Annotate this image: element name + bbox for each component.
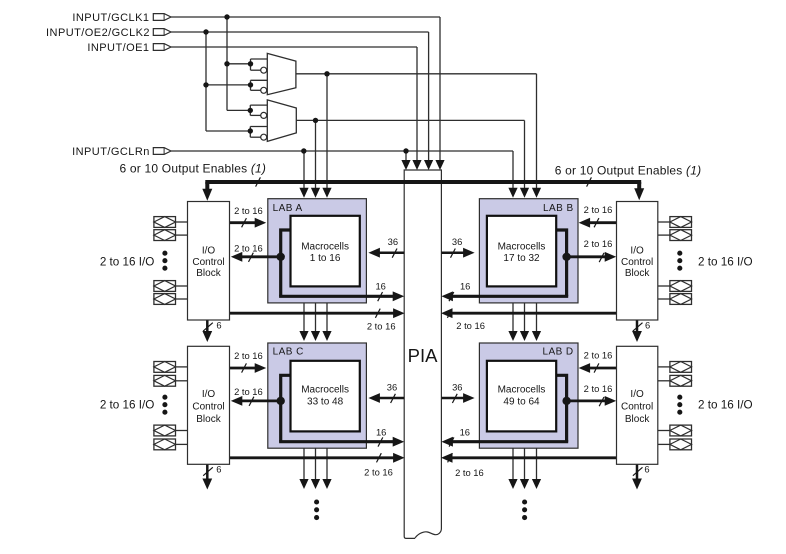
svg-text:I/O: I/O bbox=[202, 389, 216, 400]
svg-text:6 or 10 Output Enables (1): 6 or 10 Output Enables (1) bbox=[120, 161, 267, 175]
svg-text:17 to 32: 17 to 32 bbox=[503, 253, 540, 264]
svg-text:LAB C: LAB C bbox=[273, 346, 304, 357]
svg-text:2 to 16: 2 to 16 bbox=[234, 386, 263, 397]
svg-text:36: 36 bbox=[388, 236, 398, 247]
svg-text:Macrocells: Macrocells bbox=[498, 242, 546, 253]
svg-text:INPUT/OE2/GCLK2: INPUT/OE2/GCLK2 bbox=[46, 27, 150, 39]
svg-text:Block: Block bbox=[625, 268, 650, 279]
svg-text:16: 16 bbox=[376, 427, 386, 438]
svg-text:Control: Control bbox=[192, 257, 224, 268]
svg-text:2 to 16: 2 to 16 bbox=[364, 467, 393, 478]
svg-text:2 to 16: 2 to 16 bbox=[455, 467, 484, 478]
svg-text:LAB A: LAB A bbox=[273, 203, 303, 214]
svg-text:Macrocells: Macrocells bbox=[301, 242, 349, 253]
svg-text:PIA: PIA bbox=[408, 345, 438, 366]
svg-text:LAB B: LAB B bbox=[543, 203, 574, 214]
svg-text:INPUT/GCLK1: INPUT/GCLK1 bbox=[72, 12, 149, 24]
svg-text:6: 6 bbox=[644, 463, 649, 474]
svg-text:Control: Control bbox=[621, 257, 653, 268]
svg-text:36: 36 bbox=[387, 381, 397, 392]
svg-text:2 to 16: 2 to 16 bbox=[234, 243, 263, 254]
svg-text:6: 6 bbox=[645, 320, 650, 331]
svg-text:Macrocells: Macrocells bbox=[498, 385, 546, 396]
svg-text:49 to 64: 49 to 64 bbox=[503, 396, 540, 407]
svg-text:36: 36 bbox=[452, 236, 462, 247]
svg-text:1 to 16: 1 to 16 bbox=[310, 253, 341, 264]
svg-text:6 or 10 Output Enables (1): 6 or 10 Output Enables (1) bbox=[555, 163, 702, 177]
svg-text:INPUT/OE1: INPUT/OE1 bbox=[87, 42, 149, 54]
svg-text:Control: Control bbox=[192, 402, 224, 413]
svg-text:LAB D: LAB D bbox=[542, 346, 573, 357]
svg-text:2 to 16: 2 to 16 bbox=[584, 238, 613, 249]
svg-text:2 to 16: 2 to 16 bbox=[584, 383, 613, 394]
svg-text:I/O: I/O bbox=[202, 246, 216, 257]
svg-text:2 to 16: 2 to 16 bbox=[234, 350, 263, 361]
svg-text:2 to 16 I/O: 2 to 16 I/O bbox=[698, 399, 753, 412]
svg-text:2 to 16 I/O: 2 to 16 I/O bbox=[100, 399, 155, 412]
svg-text:16: 16 bbox=[375, 280, 385, 291]
svg-text:16: 16 bbox=[460, 280, 470, 291]
svg-text:2 to 16: 2 to 16 bbox=[584, 204, 613, 215]
svg-text:Block: Block bbox=[625, 414, 650, 425]
svg-text:I/O: I/O bbox=[630, 389, 644, 400]
svg-text:2 to 16: 2 to 16 bbox=[584, 349, 613, 360]
svg-text:2 to 16 I/O: 2 to 16 I/O bbox=[100, 256, 155, 269]
svg-text:Macrocells: Macrocells bbox=[301, 385, 349, 396]
svg-text:16: 16 bbox=[460, 427, 470, 438]
svg-text:6: 6 bbox=[216, 464, 221, 475]
svg-text:Block: Block bbox=[196, 268, 221, 279]
svg-text:2 to 16 I/O: 2 to 16 I/O bbox=[698, 256, 753, 269]
svg-text:I/O: I/O bbox=[630, 246, 644, 257]
svg-text:33 to 48: 33 to 48 bbox=[307, 396, 344, 407]
svg-text:Block: Block bbox=[196, 414, 221, 425]
svg-text:2 to 16: 2 to 16 bbox=[456, 320, 485, 331]
svg-text:Control: Control bbox=[621, 402, 653, 413]
svg-text:2 to 16: 2 to 16 bbox=[234, 205, 263, 216]
svg-text:2 to 16: 2 to 16 bbox=[367, 320, 396, 331]
svg-text:36: 36 bbox=[452, 381, 462, 392]
svg-text:INPUT/GCLRn: INPUT/GCLRn bbox=[72, 146, 150, 158]
svg-text:6: 6 bbox=[216, 320, 221, 331]
